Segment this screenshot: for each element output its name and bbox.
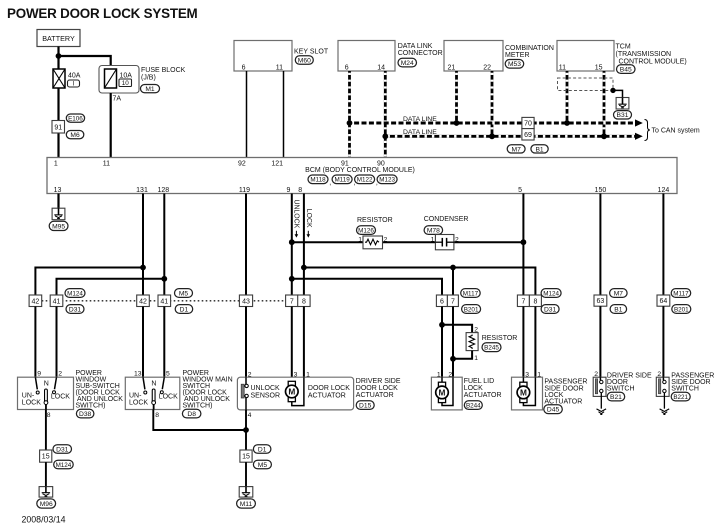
- svg-text:M124: M124: [56, 462, 72, 469]
- wire connector 63 to driver door switch: [599, 306, 601, 377]
- wire sub-switch connector 42 up to pin-131 wire: [35, 268, 143, 296]
- svg-text:D31: D31: [56, 446, 69, 453]
- svg-text:TCM: TCM: [616, 44, 631, 51]
- svg-text:9: 9: [37, 371, 41, 378]
- svg-text:D45: D45: [547, 407, 560, 414]
- svg-text:RESISTOR: RESISTOR: [482, 335, 518, 342]
- svg-text:M124: M124: [543, 290, 559, 297]
- ovals M124 / D31 (passenger actuator connector): [541, 289, 561, 298]
- svg-text:DOOR LOCK: DOOR LOCK: [308, 385, 350, 392]
- svg-text:8: 8: [47, 412, 51, 419]
- wire passenger connector 8 to actuator pin 1: [534, 307, 536, 378]
- svg-text:POWER DOOR LOCK SYSTEM: POWER DOOR LOCK SYSTEM: [7, 6, 198, 21]
- svg-text:LOCK: LOCK: [129, 399, 148, 406]
- connector 6 (fuel lid): [436, 295, 447, 307]
- svg-text:E106: E106: [68, 116, 83, 123]
- svg-text:CONDENSER: CONDENSER: [424, 216, 469, 223]
- svg-text:64: 64: [660, 298, 668, 305]
- junction meter pin 21 / CAN H: [454, 120, 460, 126]
- svg-text:41: 41: [160, 298, 168, 305]
- svg-text:8: 8: [533, 298, 537, 305]
- svg-text:21: 21: [448, 65, 456, 72]
- svg-text:15: 15: [42, 454, 50, 461]
- svg-text:5: 5: [166, 371, 170, 378]
- svg-text:1: 1: [54, 161, 58, 168]
- wire actuator pin 4 down: [245, 410, 247, 450]
- svg-text:B245: B245: [484, 345, 499, 352]
- svg-text:SWITCH: SWITCH: [607, 386, 635, 393]
- svg-text:14: 14: [377, 65, 385, 72]
- BCM connector ovals M118 M119 M122 M123: [308, 175, 328, 184]
- svg-text:1: 1: [474, 355, 478, 362]
- svg-text:8: 8: [155, 412, 159, 419]
- wire connector 7 to actuator pin 3: [291, 307, 293, 378]
- svg-text:LOCK: LOCK: [305, 209, 312, 228]
- ovals M117 / B201 (passenger door switch connector): [671, 289, 691, 298]
- svg-text:M5: M5: [258, 462, 268, 469]
- connector 42 (sub-switch): [29, 295, 42, 307]
- svg-text:B201: B201: [674, 306, 689, 313]
- connector ovals M7 / B1 under 70-69: [507, 145, 525, 153]
- svg-text:8: 8: [298, 187, 302, 194]
- svg-text:KEY SLOT: KEY SLOT: [294, 49, 329, 56]
- svg-text:6: 6: [440, 298, 444, 305]
- connector 41 (sub-switch): [50, 295, 63, 307]
- wire lock branch to fuel-lid 7 and passenger connector 8: [304, 268, 536, 296]
- junction pin-131 wire / left branch: [140, 265, 146, 271]
- wire BCM pin 9 (UNLOCK) to connector 7: [291, 194, 293, 296]
- svg-text:M: M: [520, 387, 527, 397]
- svg-text:D1: D1: [258, 446, 267, 453]
- wire connector 43 to unlock sensor pin 2: [245, 307, 247, 378]
- wire unlock branch 2 to fuel-lid connector 6: [292, 279, 442, 295]
- svg-text:COMBINATION: COMBINATION: [505, 45, 554, 52]
- svg-text:CONNECTOR: CONNECTOR: [398, 50, 443, 57]
- wire key slot pin 11 to BCM pin 121: [283, 71, 285, 158]
- svg-text:,: ,: [329, 180, 331, 187]
- svg-text:UNLOCK: UNLOCK: [251, 385, 281, 392]
- svg-text:M1: M1: [145, 86, 155, 93]
- connector 64 (passenger door switch): [657, 295, 670, 306]
- svg-text:2: 2: [594, 371, 598, 378]
- svg-text:1: 1: [437, 371, 441, 378]
- svg-text:M118: M118: [310, 177, 326, 184]
- svg-text:2: 2: [248, 371, 252, 378]
- ovals M5 / D1 (main switch connector): [175, 289, 193, 298]
- wire BCM pin 124 to connector 64: [662, 194, 664, 296]
- svg-text:DRIVER SIDE: DRIVER SIDE: [356, 378, 401, 385]
- wire BCM pin 128 to main switch connector 41: [163, 194, 165, 296]
- wire connector 8 to actuator pin 1: [303, 307, 305, 378]
- fuel lid lock actuator B244: [431, 371, 501, 410]
- svg-text:6: 6: [345, 65, 349, 72]
- svg-text:B244: B244: [466, 403, 481, 410]
- connector 91 (E106/M6): [52, 114, 85, 139]
- svg-text:B21: B21: [610, 394, 622, 401]
- wire BCM pin 5 to passenger connector 7: [522, 194, 524, 296]
- wire to resistor B245: [442, 325, 472, 333]
- wire shield to ground B31: [613, 90, 623, 97]
- wire main switch pin 8 to junction: [153, 410, 246, 431]
- connector 42 (main switch): [137, 295, 150, 307]
- svg-text:M53: M53: [508, 61, 521, 68]
- svg-text:M5: M5: [179, 290, 189, 297]
- junction meter pin 22 / CAN L: [489, 133, 495, 139]
- wire connector 15 to ground M11: [245, 462, 247, 486]
- svg-text:DATA LINK: DATA LINK: [398, 43, 433, 50]
- CAN H data line: [350, 122, 636, 125]
- wire battery to BCM pin 1: [57, 47, 59, 158]
- wire TCM pin 15 to CAN L line: [603, 71, 606, 136]
- wire fuel connector 6 to actuator pin 1: [441, 307, 443, 378]
- ground M96: [37, 487, 56, 509]
- svg-text:M126: M126: [358, 228, 374, 235]
- svg-text:LOCK: LOCK: [22, 399, 41, 406]
- svg-text:11: 11: [559, 65, 566, 72]
- resistor M126: [357, 217, 393, 249]
- svg-text:7A: 7A: [113, 96, 122, 103]
- svg-text:DATA LINE: DATA LINE: [403, 116, 437, 123]
- svg-text:B201: B201: [464, 306, 479, 313]
- passenger side door lock actuator D45: [512, 371, 588, 413]
- wire connector 42 to main switch pin 13: [142, 307, 144, 378]
- svg-text:5: 5: [518, 187, 522, 194]
- svg-text:B31: B31: [617, 112, 629, 119]
- svg-text:METER: METER: [505, 52, 530, 59]
- svg-text:119: 119: [239, 187, 250, 194]
- brace and To CAN system: [645, 120, 651, 141]
- svg-text:42: 42: [32, 298, 40, 305]
- connector 8 (driver actuator): [298, 295, 310, 307]
- connector 7 (fuel lid): [447, 295, 458, 307]
- svg-text:ACTUATOR: ACTUATOR: [308, 392, 346, 399]
- svg-text:N: N: [44, 380, 49, 387]
- shield (dashed) around TCM CAN wires: [558, 78, 614, 91]
- connector 7 (driver actuator): [286, 295, 298, 307]
- svg-text:SENSOR: SENSOR: [251, 392, 281, 399]
- svg-text:M96: M96: [40, 501, 53, 508]
- svg-text:(TRANSMISSION: (TRANSMISSION: [616, 51, 672, 58]
- wire unlock branch through resistor/condenser to pin-5 wire: [292, 241, 524, 243]
- svg-text:D15: D15: [359, 403, 372, 410]
- svg-text:D31: D31: [69, 306, 82, 313]
- wire fuse 7A to BCM pin 11: [110, 93, 112, 158]
- svg-text:ACTUATOR: ACTUATOR: [464, 392, 502, 399]
- junction DLC pin 6 / CAN H: [347, 120, 353, 126]
- svg-text:M123: M123: [379, 177, 395, 184]
- connector 15 (D1/M5): [240, 445, 272, 469]
- junction unlock wire / line C: [289, 276, 295, 282]
- svg-text:7: 7: [521, 298, 525, 305]
- wire sub-switch connector 41 up to pin-128 wire: [57, 279, 165, 295]
- svg-text:M11: M11: [240, 501, 253, 508]
- svg-text:M7: M7: [614, 290, 624, 297]
- connector 15 (D31/M124): [40, 445, 74, 469]
- junction node below battery: [56, 53, 62, 59]
- power window sub-switch D38: [18, 370, 124, 419]
- svg-text:To CAN system: To CAN system: [652, 128, 700, 135]
- svg-text:2: 2: [474, 327, 478, 334]
- svg-text:70: 70: [524, 121, 532, 128]
- ground M11: [237, 487, 256, 509]
- svg-text:2: 2: [58, 371, 62, 378]
- svg-text:2: 2: [657, 371, 661, 378]
- svg-text:LOCK: LOCK: [464, 385, 483, 392]
- ground B31: [614, 98, 632, 120]
- BCM (body control module) box: [47, 158, 677, 194]
- wire meter pin 21 to CAN H line: [455, 71, 458, 123]
- svg-text:M60: M60: [298, 57, 311, 64]
- svg-text:22: 22: [483, 65, 491, 72]
- battery: [37, 30, 80, 47]
- svg-text:UNLOCK: UNLOCK: [292, 200, 299, 229]
- svg-text:M95: M95: [52, 223, 65, 230]
- svg-text:M7: M7: [512, 146, 522, 153]
- key slot M60: [234, 41, 329, 72]
- svg-text:41: 41: [53, 298, 61, 305]
- junction unlock wire / line A: [289, 239, 295, 245]
- svg-text:N: N: [151, 380, 156, 387]
- svg-text:ACTUATOR: ACTUATOR: [356, 392, 394, 399]
- svg-text:B1: B1: [614, 306, 622, 313]
- svg-text:SWITCH): SWITCH): [183, 403, 213, 410]
- svg-text:LOCK: LOCK: [159, 394, 178, 401]
- svg-text:1: 1: [358, 236, 362, 243]
- connector 63 (driver door switch): [594, 295, 607, 306]
- svg-text:40A: 40A: [68, 73, 81, 80]
- wire TCM pin 11 to CAN H line: [566, 71, 569, 123]
- arrowhead CAN L: [635, 133, 643, 140]
- wire DLC pin 6 to BCM pin 91 (CAN H): [348, 71, 351, 158]
- svg-text:131: 131: [136, 187, 148, 194]
- wire line B down to fuel-lid connector 7: [452, 268, 454, 296]
- svg-text:DATA LINE: DATA LINE: [403, 129, 437, 136]
- svg-text:11: 11: [103, 161, 110, 168]
- svg-text:8: 8: [302, 298, 306, 305]
- connector 69 on CAN L: [522, 129, 534, 140]
- svg-text:B221: B221: [673, 394, 688, 401]
- power window main switch D8: [125, 370, 232, 419]
- connector 8 (passenger actuator): [529, 295, 541, 307]
- wire connector 41 to main switch pin 5: [163, 307, 165, 378]
- ovals M7 / B1 (driver door switch connector): [610, 289, 628, 298]
- junction line B / fuel-lid wire 7: [450, 265, 456, 271]
- wire BCM pin 119 to connector 43: [245, 194, 247, 296]
- junction fuel wire 7 / resistor branch: [450, 356, 456, 362]
- wire BCM pin 131 to main switch connector 42: [142, 194, 144, 296]
- svg-text:D38: D38: [79, 411, 92, 418]
- svg-text:LOCK: LOCK: [51, 394, 70, 401]
- svg-text:2: 2: [384, 236, 388, 243]
- svg-text:7: 7: [290, 298, 294, 305]
- svg-text:M6: M6: [70, 132, 80, 139]
- junction TCM pin 15 / CAN L: [601, 133, 607, 139]
- svg-text:63: 63: [597, 298, 605, 305]
- svg-text:RESISTOR: RESISTOR: [357, 217, 393, 224]
- svg-text:11: 11: [276, 65, 283, 72]
- svg-text:DOOR LOCK: DOOR LOCK: [356, 385, 398, 392]
- svg-text:I: I: [73, 81, 75, 88]
- svg-text:2: 2: [448, 371, 452, 378]
- svg-text:43: 43: [242, 298, 250, 305]
- svg-text:150: 150: [595, 187, 607, 194]
- svg-text:2008/03/14: 2008/03/14: [22, 515, 66, 525]
- svg-text:7: 7: [451, 298, 455, 305]
- dotted harness line through connectors: [42, 300, 286, 302]
- svg-text:M117: M117: [673, 290, 689, 297]
- CAN L data line: [385, 135, 635, 138]
- svg-text:(J/B): (J/B): [141, 75, 156, 82]
- svg-text:10: 10: [122, 80, 130, 87]
- svg-text:M24: M24: [401, 60, 414, 67]
- svg-text:13: 13: [54, 187, 62, 194]
- wire fuel connector 7 to actuator pin 2: [452, 307, 454, 378]
- wire connector 15 to ground M96: [45, 462, 47, 486]
- svg-text:15: 15: [242, 454, 250, 461]
- svg-text:91: 91: [54, 124, 62, 131]
- junction TCM pin 11 / CAN H: [564, 120, 570, 126]
- svg-text:M78: M78: [427, 228, 440, 235]
- junction pin-128 wire / left branch 2: [161, 276, 167, 282]
- svg-text:D31: D31: [544, 306, 557, 313]
- arrowhead CAN H: [635, 119, 643, 126]
- svg-text:M117: M117: [463, 290, 479, 297]
- TCM B45: [557, 41, 687, 74]
- svg-text:3: 3: [525, 371, 529, 378]
- svg-text:3: 3: [294, 371, 298, 378]
- svg-text:1: 1: [306, 371, 310, 378]
- svg-text:SWITCH): SWITCH): [76, 403, 106, 410]
- connector 41 (main switch): [158, 295, 171, 307]
- fuse block J/B with fuse 10A (10) M1: [99, 66, 186, 103]
- svg-text:B45: B45: [620, 67, 632, 74]
- wire meter pin 22 to CAN L line: [491, 71, 494, 136]
- svg-text:13: 13: [134, 371, 142, 378]
- svg-text:69: 69: [524, 132, 532, 139]
- wire BCM pin 13 to ground: [57, 194, 59, 209]
- svg-text:121: 121: [271, 161, 283, 168]
- junction pin-5 wire / line A: [521, 239, 527, 245]
- svg-text:2: 2: [455, 236, 459, 243]
- svg-text:BATTERY: BATTERY: [42, 34, 75, 43]
- wire battery junction to fuse block: [59, 56, 111, 66]
- connector 43: [239, 295, 252, 307]
- svg-text:D8: D8: [187, 411, 196, 418]
- junction fuel wire 6 / resistor branch: [439, 322, 445, 328]
- svg-text:6: 6: [242, 65, 246, 72]
- wire resistor B245 to fuel wire 7: [453, 351, 472, 359]
- svg-text:9: 9: [286, 187, 290, 194]
- connector 7 (passenger actuator): [517, 295, 529, 307]
- ovals M117 / B201 (fuel lid connector): [461, 289, 481, 298]
- svg-text:15: 15: [595, 65, 603, 72]
- svg-text:M122: M122: [357, 177, 373, 184]
- wire BCM pin 8 (LOCK) to connector 8: [303, 194, 305, 296]
- svg-text:FUSE BLOCK: FUSE BLOCK: [141, 67, 186, 74]
- passenger side door switch B221: [656, 371, 714, 414]
- wire DLC pin 14 to BCM pin 90 (CAN L): [384, 71, 387, 158]
- svg-text:4: 4: [248, 412, 252, 419]
- svg-text:1: 1: [431, 236, 435, 243]
- fusible link 40A (I): [53, 69, 81, 88]
- svg-text:42: 42: [139, 298, 147, 305]
- junction DLC pin 14 / CAN L: [382, 133, 388, 139]
- wire BCM pin 150 to connector 63: [599, 194, 601, 296]
- svg-text:SWITCH: SWITCH: [671, 386, 699, 393]
- wire key slot pin 6 to BCM pin 92: [246, 71, 248, 158]
- data link connector M24: [338, 41, 443, 72]
- svg-text:M124: M124: [67, 290, 83, 297]
- wire passenger connector 7 to actuator pin 3: [522, 307, 524, 378]
- combination meter M53: [444, 41, 554, 72]
- svg-text:M119: M119: [334, 177, 350, 184]
- resistor B245: [466, 327, 517, 362]
- svg-text:BCM (BODY CONTROL MODULE): BCM (BODY CONTROL MODULE): [305, 167, 415, 174]
- svg-text:M: M: [288, 387, 295, 397]
- wire sub-switch pin 8 to connector 15: [45, 410, 47, 451]
- junction lock wire / line B: [301, 265, 307, 271]
- ovals M124 / D31 (sub-switch connector): [65, 289, 85, 298]
- condenser M78: [424, 216, 469, 250]
- connector 70 on CAN H: [522, 117, 534, 128]
- ground M95: [49, 208, 68, 230]
- svg-text:128: 128: [157, 187, 169, 194]
- svg-text:124: 124: [658, 187, 670, 194]
- svg-text:B1: B1: [535, 146, 543, 153]
- svg-text:D1: D1: [180, 306, 189, 313]
- svg-text:1: 1: [537, 371, 541, 378]
- svg-text:FUEL LID: FUEL LID: [464, 378, 494, 385]
- svg-text:92: 92: [238, 161, 246, 168]
- driver side door switch B21: [593, 371, 652, 414]
- driver side door lock actuator D15: [237, 371, 400, 418]
- wire connector 42 to sub-switch pin 9: [34, 307, 36, 378]
- junction main switch / actuator ground wire: [243, 427, 249, 433]
- svg-text:M: M: [439, 387, 446, 397]
- node: shield drain junction: [610, 88, 615, 93]
- wire connector 41 to sub-switch pin 2: [56, 307, 58, 378]
- wire connector 64 to passenger door switch: [662, 306, 664, 377]
